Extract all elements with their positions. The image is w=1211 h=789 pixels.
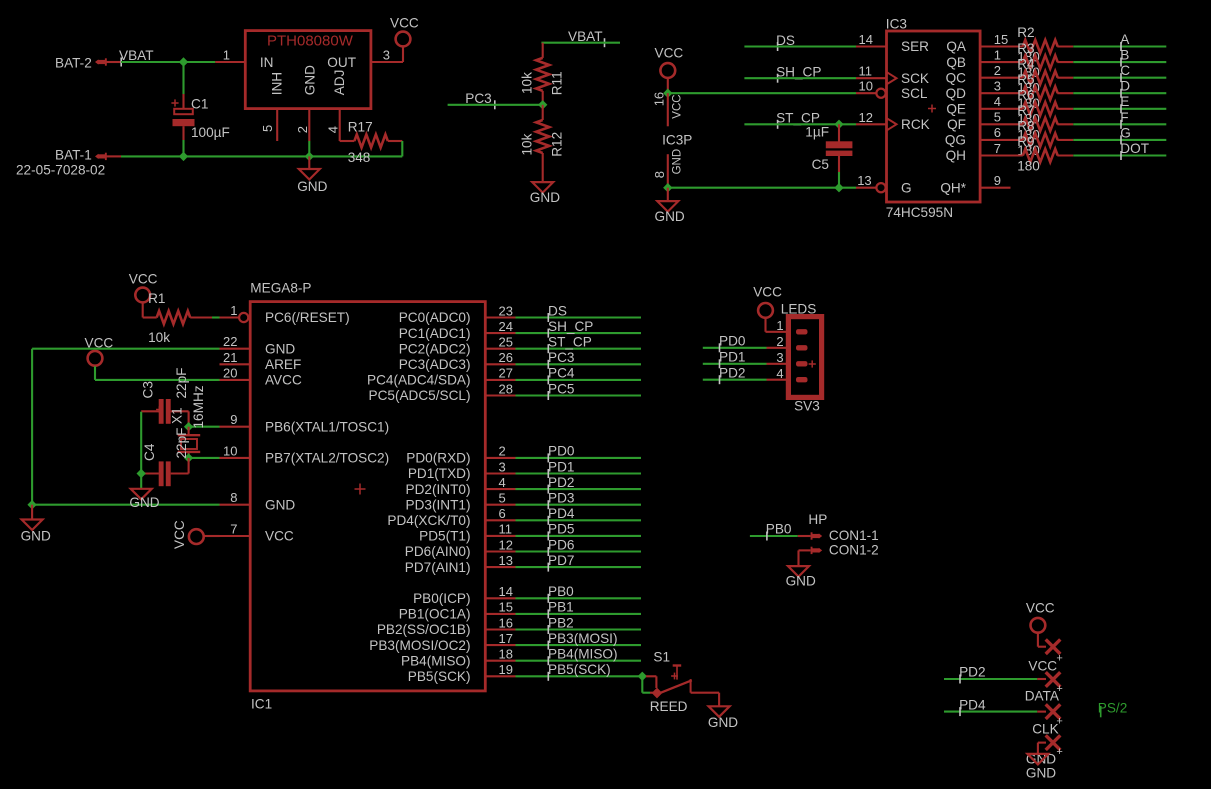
svg-text:28: 28 <box>499 381 513 396</box>
svg-text:PD3: PD3 <box>548 491 574 506</box>
svg-text:CLK: CLK <box>1032 721 1058 736</box>
resistor R11 <box>542 43 544 58</box>
wire net PD6 <box>516 550 642 552</box>
wire net PC5 <box>516 394 642 396</box>
svg-text:PD1: PD1 <box>548 459 574 474</box>
svg-text:R5: R5 <box>1017 72 1034 87</box>
wire net PD4 <box>516 519 642 521</box>
svg-text:7: 7 <box>230 522 237 537</box>
pin 24 stub <box>486 332 516 334</box>
power symbol VCC at PS/2 <box>1031 618 1046 633</box>
svg-text:180: 180 <box>1017 158 1040 173</box>
power symbol VCC above R1 <box>135 288 150 303</box>
svg-text:PD6: PD6 <box>548 537 574 552</box>
connector X pad DATA <box>1046 672 1061 687</box>
pin 18 stub <box>486 660 516 662</box>
svg-text:AREF: AREF <box>265 357 301 372</box>
pin 6 stub QG <box>980 139 1023 141</box>
svg-text:3: 3 <box>994 79 1001 94</box>
wire net SH_CP <box>516 332 642 334</box>
pin 27 stub <box>486 379 516 381</box>
wire net PD1 to SV3 <box>703 363 767 365</box>
connector pin bar 2 <box>796 345 808 350</box>
svg-text:PD2(INT0): PD2(INT0) <box>406 482 471 497</box>
wire net VCC to IC3 pin 10 <box>668 92 856 94</box>
svg-text:26: 26 <box>499 350 513 365</box>
wire net PB3(MOSI) <box>516 644 642 646</box>
svg-text:PD3(INT1): PD3(INT1) <box>406 497 471 512</box>
svg-text:VBAT: VBAT <box>119 48 154 63</box>
junction PC3 divider <box>538 100 547 109</box>
svg-text:PB4(MISO): PB4(MISO) <box>401 653 471 668</box>
svg-text:BAT-2: BAT-2 <box>55 55 92 70</box>
svg-text:PC1(ADC1): PC1(ADC1) <box>399 326 471 341</box>
svg-text:23: 23 <box>499 303 513 318</box>
svg-text:CON1-1: CON1-1 <box>829 528 879 543</box>
junction VBAT / C1 <box>179 57 188 66</box>
svg-text:GND: GND <box>21 529 51 544</box>
capacitor C1 <box>182 94 184 110</box>
svg-text:C: C <box>1120 63 1130 78</box>
pin 2 stub QC <box>980 77 1023 79</box>
wire net PD2 <box>516 488 642 490</box>
svg-text:9: 9 <box>230 412 237 427</box>
pin 9 stub QH* <box>980 187 1010 189</box>
svg-text:C4: C4 <box>142 443 157 461</box>
svg-text:16: 16 <box>499 615 513 630</box>
connector pin bar 1 <box>796 329 808 334</box>
svg-text:ADJ: ADJ <box>332 70 347 96</box>
pin 5 stub <box>486 504 516 506</box>
svg-text:HP: HP <box>808 512 827 527</box>
wire BAT-2 pin <box>106 61 121 63</box>
ground symbol GND at S1 <box>709 706 730 717</box>
svg-text:PB5(SCK): PB5(SCK) <box>408 669 471 684</box>
pin 6 stub <box>486 519 516 521</box>
resistor R17 <box>340 140 355 142</box>
power symbol VCC at IC3P <box>660 63 675 78</box>
svg-text:PB0: PB0 <box>766 522 792 537</box>
svg-text:PB6(XTAL1/TOSC1): PB6(XTAL1/TOSC1) <box>265 419 389 434</box>
svg-text:74HC595N: 74HC595N <box>886 205 953 220</box>
svg-text:1: 1 <box>230 303 237 318</box>
resistor R9 <box>1023 149 1058 162</box>
pin 5 stub INH <box>276 109 278 141</box>
svg-text:16: 16 <box>651 92 666 106</box>
svg-text:QE: QE <box>946 101 966 116</box>
svg-text:27: 27 <box>499 366 513 381</box>
origin plus SV3 <box>809 363 816 365</box>
capacitor C1 plus mark <box>171 102 178 104</box>
svg-text:10k: 10k <box>520 133 535 155</box>
pin 3 wire OUT to VCC <box>371 61 403 63</box>
svg-text:VCC: VCC <box>1028 658 1057 673</box>
wire VCC to pin 16 <box>667 78 669 93</box>
pin 16 stub <box>486 628 516 630</box>
svg-text:PD1(TXD): PD1(TXD) <box>408 466 471 481</box>
svg-text:C5: C5 <box>812 157 829 172</box>
ground symbol GND below IC3P <box>667 188 669 201</box>
svg-text:R12: R12 <box>550 132 565 157</box>
pin 28 stub <box>486 394 516 396</box>
svg-text:5: 5 <box>260 125 275 132</box>
wire net GND to IC3 pin 13 <box>668 187 856 189</box>
svg-text:3: 3 <box>383 47 390 62</box>
resistor R4 <box>1023 71 1058 84</box>
svg-text:SH_CP: SH_CP <box>548 319 593 334</box>
svg-text:13: 13 <box>857 173 871 188</box>
svg-text:22-05-7028-02: 22-05-7028-02 <box>16 162 105 177</box>
pin 14 stub <box>486 597 516 599</box>
svg-text:MEGA8-P: MEGA8-P <box>250 281 311 296</box>
svg-text:GND: GND <box>708 715 738 730</box>
junction PB5 net at S1 <box>638 672 647 681</box>
svg-text:DOT: DOT <box>1120 141 1149 156</box>
wire net PD0 to SV3 <box>703 347 767 349</box>
power connector pad BAT-2 <box>95 59 98 64</box>
pin 13 stub G with bubble <box>856 187 877 189</box>
svg-text:IC3: IC3 <box>886 17 907 32</box>
ground symbol GND at HP <box>788 566 809 577</box>
wire net VBAT top <box>541 42 620 44</box>
svg-text:6: 6 <box>499 506 506 521</box>
svg-text:CON1-2: CON1-2 <box>829 543 879 558</box>
wire net PB2 <box>516 628 642 630</box>
wire net DS <box>516 316 642 318</box>
pin 3 stub <box>486 472 516 474</box>
svg-text:+: + <box>1056 683 1062 695</box>
svg-text:3: 3 <box>499 459 506 474</box>
pin 15 stub <box>486 613 516 615</box>
svg-text:2: 2 <box>499 444 506 459</box>
svg-text:SCL: SCL <box>901 86 928 101</box>
svg-text:QG: QG <box>945 133 966 148</box>
svg-text:18: 18 <box>499 647 513 662</box>
wire crystal GND rail <box>140 412 142 474</box>
connector pad CON1-1 <box>819 533 822 538</box>
svg-text:PD2: PD2 <box>548 475 574 490</box>
wire pin 10 <box>189 457 220 459</box>
power symbol VCC at regulator output <box>396 32 411 47</box>
connector SV3 box <box>788 317 821 398</box>
svg-text:VCC: VCC <box>265 529 294 544</box>
wire net PD2 to SV3 <box>703 379 767 381</box>
svg-text:PB0: PB0 <box>548 584 574 599</box>
svg-text:PB5(SCK): PB5(SCK) <box>548 662 611 677</box>
wire net PB1 <box>516 613 642 615</box>
wire net PD1 <box>516 472 642 474</box>
svg-text:100µF: 100µF <box>191 125 230 140</box>
svg-text:PD7: PD7 <box>548 553 574 568</box>
junction VCC pin16 / SCL wire <box>663 89 672 98</box>
junction XTAL2 pin 10 <box>184 453 193 462</box>
svg-text:24: 24 <box>499 319 513 334</box>
svg-text:348: 348 <box>348 150 371 165</box>
svg-text:1: 1 <box>994 47 1001 62</box>
svg-text:QA: QA <box>946 39 967 54</box>
wire GND pin 8 <box>32 504 219 506</box>
ground symbol GND below R12 <box>532 182 553 193</box>
svg-text:PD5: PD5 <box>548 522 574 537</box>
pin 8 stub of IC3P <box>667 154 669 188</box>
svg-text:INH: INH <box>270 72 285 95</box>
svg-text:PD7(AIN1): PD7(AIN1) <box>405 560 471 575</box>
wire VCC to SV3 pin 1 <box>764 318 766 332</box>
svg-text:PC3(ADC3): PC3(ADC3) <box>399 357 471 372</box>
svg-text:PD4(XCK/T0): PD4(XCK/T0) <box>387 513 470 528</box>
wire S1 to GND <box>691 692 720 694</box>
wire net PD3 <box>516 504 642 506</box>
wire CON1-2 to GND <box>799 549 811 551</box>
pin 16 stub of IC3P <box>667 93 669 126</box>
pin 1 stub QB <box>980 61 1023 63</box>
svg-text:GND: GND <box>129 495 159 510</box>
svg-text:14: 14 <box>859 32 873 47</box>
switch S1 hinge diamond <box>652 688 663 699</box>
origin cross IC3 <box>928 108 936 110</box>
svg-text:+: + <box>1056 746 1062 758</box>
pin 12 stub RCK with clock wedge <box>856 123 886 125</box>
wire net PD2 to PS/2 <box>944 678 1037 680</box>
svg-text:PC2(ADC2): PC2(ADC2) <box>399 341 471 356</box>
microcontroller IC1 MEGA8-P box <box>250 302 485 691</box>
svg-text:17: 17 <box>499 631 513 646</box>
svg-text:1µF: 1µF <box>805 125 829 140</box>
svg-text:GND: GND <box>1026 766 1056 781</box>
wire net PD0 <box>516 457 642 459</box>
pin 11 stub <box>486 535 516 537</box>
svg-text:R2: R2 <box>1017 25 1034 40</box>
svg-text:+: + <box>1056 653 1062 665</box>
connector X pad CLK <box>1046 704 1061 719</box>
pin 17 stub <box>486 644 516 646</box>
svg-text:SV3: SV3 <box>794 398 820 413</box>
connector pad CON1-2 <box>819 548 822 553</box>
ground symbol GND bottom left <box>31 505 33 520</box>
svg-text:QC: QC <box>946 70 967 85</box>
wire net PB4(MISO) <box>516 660 642 662</box>
svg-text:PD0(RXD): PD0(RXD) <box>406 451 470 466</box>
wire net PC4 <box>516 379 642 381</box>
wire net D <box>1073 92 1166 94</box>
svg-text:4: 4 <box>499 475 506 490</box>
svg-text:X1: X1 <box>170 407 185 424</box>
svg-text:PB3(MOSI/OC2): PB3(MOSI/OC2) <box>369 638 470 653</box>
junction GND rail / C1 <box>179 152 188 161</box>
pin 5 stub QF <box>980 123 1023 125</box>
resistor R12 <box>542 105 544 120</box>
switch S1 fixed contact <box>690 679 692 693</box>
svg-text:GND: GND <box>655 209 685 224</box>
pin 2 stub <box>486 457 516 459</box>
resistor R5 <box>1023 87 1058 100</box>
svg-text:12: 12 <box>859 110 873 125</box>
svg-text:R11: R11 <box>550 71 565 95</box>
junction ST_CP / C5 <box>834 120 843 129</box>
svg-text:A: A <box>1120 32 1130 47</box>
switch S1 actuator <box>673 664 682 666</box>
capacitor C3 origin cross <box>156 409 162 411</box>
power connector pad BAT-1 <box>95 154 98 159</box>
pin 11 stub SCK with clock wedge <box>856 77 886 79</box>
svg-text:PD4: PD4 <box>959 697 986 712</box>
svg-text:PB4(MISO): PB4(MISO) <box>548 647 618 662</box>
pin 23 stub <box>486 316 516 318</box>
svg-text:2: 2 <box>994 63 1001 78</box>
pin 2 wire GND <box>308 109 310 141</box>
svg-text:G: G <box>901 180 912 195</box>
svg-text:GND: GND <box>671 149 683 175</box>
svg-text:PTH08080W: PTH08080W <box>267 33 354 50</box>
svg-text:16MHz: 16MHz <box>191 385 206 428</box>
wire net DS <box>744 45 856 47</box>
wire pad GND to ground <box>1038 742 1046 744</box>
svg-text:11: 11 <box>859 64 873 79</box>
origin cross IC1 <box>355 488 366 490</box>
svg-text:5: 5 <box>994 110 1001 125</box>
svg-text:G: G <box>1120 125 1131 140</box>
capacitor C4 <box>141 472 159 474</box>
pin 10 stub <box>220 457 251 459</box>
svg-text:15: 15 <box>994 32 1008 47</box>
svg-text:VCC: VCC <box>1026 600 1055 615</box>
capacitor C5 <box>838 124 840 141</box>
svg-text:PC4(ADC4/SDA): PC4(ADC4/SDA) <box>367 373 471 388</box>
connector X pad VCC <box>1046 639 1061 654</box>
svg-text:R17: R17 <box>348 119 373 134</box>
svg-text:PD1: PD1 <box>719 350 745 365</box>
svg-text:QH*: QH* <box>940 180 966 195</box>
wire net A <box>1073 45 1166 47</box>
wire R1 to pin 1 <box>212 316 220 318</box>
connector pin bar 4 <box>796 377 808 382</box>
svg-text:QH: QH <box>946 148 966 163</box>
resistor R3 <box>1023 55 1058 68</box>
svg-text:VCC: VCC <box>671 94 683 118</box>
svg-text:+: + <box>1056 716 1062 728</box>
svg-text:PB1: PB1 <box>548 600 574 615</box>
wire net B <box>1073 61 1166 63</box>
svg-text:PD4: PD4 <box>548 506 575 521</box>
svg-text:10k: 10k <box>148 330 170 345</box>
wire VCC to pin 7 <box>204 535 220 537</box>
svg-text:PC5: PC5 <box>548 381 574 396</box>
switch S1 blade <box>661 680 692 692</box>
svg-text:PB1(OC1A): PB1(OC1A) <box>399 607 471 622</box>
wire VCC to AVCC pin 20 <box>94 366 96 380</box>
svg-text:22pF: 22pF <box>174 368 189 399</box>
svg-text:6: 6 <box>994 125 1001 140</box>
pin 15 stub QA <box>980 45 1023 47</box>
svg-text:SCK: SCK <box>901 71 929 86</box>
voltage regulator U1 PTH08080W box <box>245 31 371 109</box>
pin 10 stub SCL with bubble <box>856 92 877 94</box>
svg-text:22: 22 <box>223 334 237 349</box>
svg-text:QF: QF <box>947 117 966 132</box>
power symbol VCC at SV3 <box>758 303 773 318</box>
svg-text:PB2: PB2 <box>548 615 574 630</box>
pin 4 stub QE <box>980 108 1023 110</box>
wire net SH_CP <box>744 77 856 79</box>
connector X pad GND <box>1046 735 1061 750</box>
resistor R1 <box>142 302 144 317</box>
junction XTAL1 pin 9 <box>184 422 193 431</box>
wire S1 loop <box>646 675 656 677</box>
pin 25 stub <box>486 348 516 350</box>
wire net E <box>1073 108 1166 110</box>
svg-text:25: 25 <box>499 335 513 350</box>
svg-text:PD2: PD2 <box>719 365 745 380</box>
svg-text:9: 9 <box>994 173 1001 188</box>
connector pin bar 3 <box>796 361 808 366</box>
svg-text:PS/2: PS/2 <box>1098 700 1127 715</box>
svg-text:R4: R4 <box>1017 56 1035 71</box>
svg-text:7: 7 <box>994 141 1001 156</box>
svg-text:IN: IN <box>260 55 274 70</box>
svg-text:R8: R8 <box>1017 119 1034 134</box>
svg-text:4: 4 <box>994 94 1001 109</box>
svg-text:14: 14 <box>499 584 513 599</box>
svg-text:C1: C1 <box>191 96 208 111</box>
ground symbol GND below C4 <box>140 474 142 489</box>
svg-text:QD: QD <box>946 86 967 101</box>
svg-text:1: 1 <box>223 47 230 62</box>
pin 13 stub <box>486 566 516 568</box>
wire net PD7 <box>516 566 642 568</box>
wire net ST_CP <box>516 348 642 350</box>
svg-text:10k: 10k <box>520 72 535 94</box>
resistor R7 <box>1023 118 1058 131</box>
svg-text:VCC: VCC <box>655 46 684 61</box>
capacitor C1 wire bottom <box>182 140 184 156</box>
wire net F <box>1073 123 1166 125</box>
capacitor C3 <box>141 410 159 412</box>
junction IC3P GND / C5 wire <box>663 183 672 192</box>
svg-text:GND: GND <box>530 190 560 205</box>
wire net PC3 <box>516 363 642 365</box>
pin 1 stub IN <box>215 61 245 63</box>
pin 21 stub <box>220 363 251 365</box>
junction C4 GND <box>137 469 146 478</box>
svg-text:VCC: VCC <box>172 520 187 549</box>
power symbol VCC at AVCC <box>88 351 103 366</box>
svg-text:PD6(AIN0): PD6(AIN0) <box>405 544 471 559</box>
wire net C <box>1073 77 1166 79</box>
pin 4 stub <box>486 488 516 490</box>
pin 4 wire ADJ <box>339 109 341 141</box>
svg-text:REED: REED <box>650 699 688 714</box>
svg-text:2: 2 <box>295 126 310 133</box>
svg-text:11: 11 <box>499 522 513 537</box>
pin 19 stub <box>486 675 516 677</box>
svg-text:13: 13 <box>499 553 513 568</box>
svg-text:IC3P: IC3P <box>662 133 692 148</box>
wire net PD4 to PS/2 <box>944 711 1037 713</box>
resistor R2 <box>1023 40 1058 53</box>
svg-text:R7: R7 <box>1017 103 1034 118</box>
svg-text:SER: SER <box>901 39 929 54</box>
svg-text:GND: GND <box>302 65 317 95</box>
svg-text:PC0(ADC0): PC0(ADC0) <box>399 310 471 325</box>
ground symbol GND at PS/2 <box>1027 754 1048 765</box>
wire net PB5(SCK) <box>516 675 643 677</box>
pin 20 stub <box>220 379 251 381</box>
svg-text:5: 5 <box>499 491 506 506</box>
pin 1 stub /RESET with bubble <box>220 316 240 318</box>
svg-text:PB3(MOSI): PB3(MOSI) <box>548 631 618 646</box>
svg-text:DATA: DATA <box>1025 689 1060 704</box>
svg-text:IC1: IC1 <box>251 697 272 712</box>
